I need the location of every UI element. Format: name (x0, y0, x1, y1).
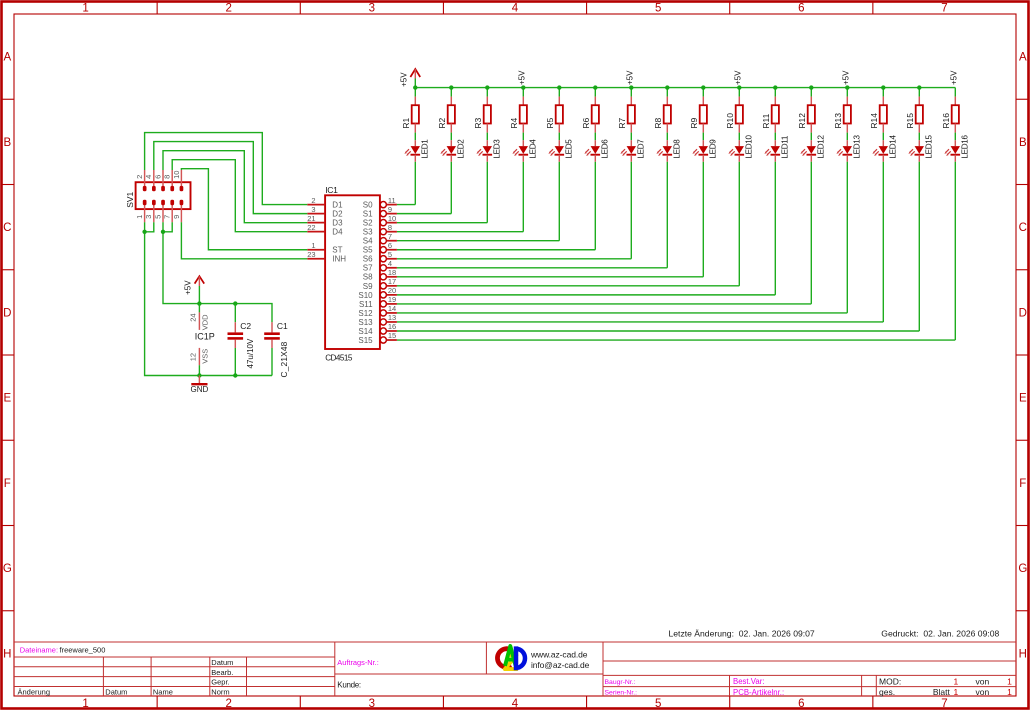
resistor R10 (725, 88, 743, 133)
svg-text:Blatt: Blatt (933, 687, 951, 697)
wire (397, 222, 487, 224)
svg-text:LED9: LED9 (709, 139, 718, 159)
wire (397, 330, 919, 332)
LED LED2 (440, 139, 465, 162)
svg-text:C: C (3, 222, 11, 234)
ic power part IC1P (188, 304, 214, 376)
svg-text:R9: R9 (689, 117, 699, 128)
LED LED6 (584, 139, 609, 162)
svg-text:7: 7 (941, 698, 947, 710)
svg-text:D3: D3 (332, 219, 343, 228)
wire (666, 162, 668, 268)
svg-text:2: 2 (135, 175, 144, 179)
LED LED12 (800, 135, 825, 162)
wire (397, 321, 883, 323)
svg-text:S3: S3 (363, 228, 373, 237)
svg-text:1: 1 (82, 3, 88, 15)
svg-text:4: 4 (512, 698, 519, 710)
wire (414, 162, 416, 205)
ground GND (191, 376, 209, 395)
svg-text:IC1P: IC1P (195, 331, 215, 341)
svg-text:C: C (1019, 222, 1027, 234)
svg-text:E: E (1019, 393, 1027, 405)
wire (414, 133, 416, 141)
svg-text:Kunde:: Kunde: (337, 680, 361, 689)
svg-text:SV1: SV1 (125, 191, 135, 207)
junction (161, 230, 165, 234)
wire (702, 162, 704, 277)
wire (145, 222, 154, 232)
svg-text:R14: R14 (869, 113, 879, 129)
svg-text:R12: R12 (797, 113, 807, 129)
svg-text:1: 1 (1007, 687, 1012, 697)
LED LED10 (728, 135, 753, 162)
svg-text:14: 14 (388, 304, 396, 313)
wire (882, 162, 884, 322)
svg-text:+5V: +5V (841, 70, 850, 85)
svg-text:16: 16 (388, 322, 396, 331)
svg-text:LED1: LED1 (421, 139, 430, 159)
wire (594, 162, 596, 250)
wire (397, 303, 811, 305)
svg-text:LED13: LED13 (853, 135, 862, 159)
svg-text:IC1: IC1 (325, 185, 338, 195)
svg-text:B: B (3, 137, 11, 149)
svg-text:4: 4 (512, 3, 519, 15)
svg-text:Best.Var:: Best.Var: (733, 677, 765, 686)
svg-text:1: 1 (135, 215, 144, 219)
svg-text:www.az-cad.de: www.az-cad.de (530, 650, 588, 660)
svg-text:5: 5 (655, 698, 661, 710)
svg-text:12: 12 (188, 353, 197, 361)
wire (666, 133, 668, 141)
junction (881, 85, 885, 89)
svg-text:S8: S8 (363, 273, 373, 282)
svg-text:R2: R2 (437, 117, 447, 128)
svg-text:23: 23 (307, 250, 315, 259)
svg-text:6: 6 (798, 698, 804, 710)
junction (593, 85, 597, 89)
svg-text:H: H (3, 648, 11, 660)
svg-text:VSS: VSS (201, 349, 210, 364)
LED LED7 (620, 139, 645, 162)
supply +5V P1 (400, 69, 421, 88)
svg-text:R5: R5 (545, 117, 555, 128)
svg-text:+5V: +5V (625, 70, 634, 85)
svg-text:info@az-cad.de: info@az-cad.de (531, 660, 590, 670)
svg-text:S9: S9 (363, 282, 373, 291)
wire (397, 294, 775, 296)
svg-text:Gedruckt: 02. Jan. 2026 09:08: Gedruckt: 02. Jan. 2026 09:08 (881, 628, 999, 638)
svg-text:S7: S7 (363, 264, 373, 273)
wire (774, 133, 776, 141)
wire (918, 162, 920, 331)
svg-text:VDD: VDD (201, 314, 210, 330)
svg-text:D2: D2 (332, 210, 343, 219)
svg-text:Bearb.: Bearb. (211, 668, 233, 677)
svg-text:R4: R4 (509, 117, 519, 128)
junction (845, 85, 849, 89)
junction (809, 85, 813, 89)
junction (557, 85, 561, 89)
svg-text:LED14: LED14 (889, 135, 898, 159)
svg-text:S6: S6 (363, 255, 373, 264)
wire (594, 133, 596, 141)
svg-text:+5V: +5V (949, 70, 958, 85)
svg-text:R1: R1 (401, 117, 411, 128)
junction (701, 85, 705, 89)
capacitor C1 (264, 321, 289, 378)
svg-text:von: von (976, 687, 990, 697)
svg-text:S12: S12 (358, 309, 373, 318)
wire (738, 162, 740, 286)
svg-text:CD4515: CD4515 (325, 354, 353, 363)
svg-text:LED8: LED8 (673, 139, 682, 159)
svg-text:C2: C2 (240, 321, 251, 331)
svg-text:S5: S5 (363, 246, 373, 255)
svg-text:1: 1 (1007, 676, 1012, 686)
svg-text:2: 2 (226, 698, 232, 710)
wire (810, 133, 812, 141)
wire (738, 133, 740, 141)
svg-text:18: 18 (388, 268, 396, 277)
resistor R2 (437, 88, 455, 133)
LED LED16 (944, 135, 969, 162)
LED LED11 (764, 135, 789, 162)
svg-text:5: 5 (388, 250, 392, 259)
svg-text:5: 5 (655, 3, 661, 15)
svg-text:R3: R3 (473, 117, 483, 128)
svg-text:47u/10V: 47u/10V (246, 338, 255, 368)
svg-text:3: 3 (144, 215, 153, 219)
wire (397, 240, 559, 242)
wire (810, 162, 812, 304)
svg-text:Datum: Datum (105, 687, 127, 696)
svg-text:20: 20 (388, 286, 396, 295)
svg-text:Name: Name (153, 687, 173, 696)
svg-text:S11: S11 (359, 300, 373, 309)
wire (918, 133, 920, 141)
svg-text:Auftrags-Nr.:: Auftrags-Nr.: (337, 658, 378, 667)
resistor R14 (869, 88, 887, 133)
svg-text:S10: S10 (358, 291, 373, 300)
junction (197, 373, 201, 377)
svg-text:LED16: LED16 (961, 135, 970, 159)
svg-text:4: 4 (388, 259, 392, 268)
wire (163, 151, 307, 223)
wire (172, 160, 307, 232)
svg-text:INH: INH (332, 255, 346, 264)
wire (397, 312, 847, 314)
svg-text:3: 3 (369, 698, 375, 710)
junction (142, 230, 146, 234)
svg-text:R11: R11 (761, 113, 771, 128)
resistor R4 (509, 88, 527, 133)
resistor R6 (581, 88, 599, 133)
junction (449, 85, 453, 89)
svg-text:LED4: LED4 (529, 139, 538, 159)
resistor R1 (401, 88, 419, 133)
wire +5V rail (415, 87, 955, 89)
svg-text:D1: D1 (332, 201, 343, 210)
svg-text:10: 10 (388, 214, 396, 223)
ic U1 CD4515 (307, 185, 397, 363)
wire (145, 133, 308, 205)
junction (233, 301, 237, 305)
wire (450, 162, 452, 214)
resistor R7 (617, 88, 635, 133)
svg-text:15: 15 (388, 331, 396, 340)
svg-text:R8: R8 (653, 117, 663, 128)
svg-text:G: G (3, 563, 12, 575)
wire (558, 133, 560, 141)
wire (846, 162, 848, 313)
svg-text:Dateiname:: Dateiname: (20, 646, 58, 655)
svg-text:LED2: LED2 (457, 139, 466, 159)
wire (630, 162, 632, 259)
svg-text:6: 6 (798, 3, 804, 15)
wire (397, 285, 739, 287)
svg-text:G: G (1018, 563, 1027, 575)
svg-text:2: 2 (311, 196, 315, 205)
svg-text:LED12: LED12 (817, 135, 826, 159)
LED LED4 (512, 139, 537, 162)
svg-text:S15: S15 (358, 336, 373, 345)
svg-text:7: 7 (941, 3, 947, 15)
wire (522, 162, 524, 232)
junction (233, 373, 237, 377)
svg-text:S0: S0 (363, 201, 373, 210)
svg-text:21: 21 (307, 214, 315, 223)
svg-text:von: von (976, 676, 990, 686)
LED LED5 (548, 139, 573, 162)
wire (397, 276, 703, 278)
svg-text:S2: S2 (363, 219, 373, 228)
svg-text:9: 9 (388, 205, 392, 214)
svg-text:10: 10 (172, 171, 181, 179)
svg-text:Letzte Änderung: 02. Jan. 202: Letzte Änderung: 02. Jan. 2026 09:07 (669, 628, 815, 638)
wire (450, 133, 452, 141)
LED LED1 (404, 139, 429, 162)
wire (882, 133, 884, 141)
svg-text:MOD:: MOD: (879, 676, 901, 686)
wire (397, 249, 595, 251)
wire +5V net left (163, 222, 272, 322)
svg-text:Baugr-Nr.:: Baugr-Nr.: (605, 679, 636, 686)
svg-text:11: 11 (388, 196, 396, 205)
svg-text:13: 13 (388, 313, 396, 322)
svg-text:C1: C1 (277, 321, 288, 331)
svg-text:LED10: LED10 (745, 135, 754, 159)
junction (665, 85, 669, 89)
wire (397, 231, 523, 233)
svg-text:+5V: +5V (517, 70, 526, 85)
junction (413, 85, 417, 89)
svg-text:LED6: LED6 (601, 139, 610, 159)
resistor R8 (653, 88, 671, 133)
wire (954, 133, 956, 141)
junction (197, 301, 201, 305)
resistor R5 (545, 88, 563, 133)
junction (521, 85, 525, 89)
wire (486, 133, 488, 141)
svg-text:D: D (3, 307, 11, 319)
wire (397, 258, 631, 260)
svg-text:freeware_500: freeware_500 (60, 646, 106, 655)
svg-text:F: F (4, 478, 11, 490)
wire (702, 133, 704, 141)
connector SV1 (125, 170, 190, 222)
svg-text:LED3: LED3 (493, 139, 502, 159)
svg-text:Änderung: Änderung (18, 687, 51, 696)
LED LED14 (872, 135, 897, 162)
wire GND net left (145, 222, 272, 375)
svg-text:19: 19 (388, 295, 396, 304)
svg-text:+5V: +5V (184, 280, 193, 295)
wire (522, 133, 524, 141)
svg-text:2: 2 (226, 3, 232, 15)
svg-text:R10: R10 (725, 113, 735, 129)
svg-text:S14: S14 (358, 327, 373, 336)
svg-text:17: 17 (388, 277, 396, 286)
wire (154, 142, 307, 214)
svg-text:LED11: LED11 (781, 135, 790, 158)
svg-text:GND: GND (191, 385, 209, 394)
svg-text:S13: S13 (358, 318, 373, 327)
svg-text:C_21X48: C_21X48 (279, 341, 289, 377)
svg-text:D: D (1019, 307, 1027, 319)
supply +5V P2 (184, 276, 205, 303)
resistor R3 (473, 88, 491, 133)
capacitor C2 (228, 304, 255, 376)
svg-text:1: 1 (311, 241, 315, 250)
svg-text:ST: ST (332, 246, 342, 255)
svg-text:LED7: LED7 (637, 139, 646, 159)
svg-text:6: 6 (153, 175, 162, 179)
svg-text:A: A (1019, 52, 1027, 64)
junction (737, 85, 741, 89)
resistor R12 (797, 88, 815, 133)
wire (630, 133, 632, 141)
wire INH net (181, 222, 307, 258)
svg-text:B: B (1019, 137, 1027, 149)
svg-text:3: 3 (369, 3, 375, 15)
wire (846, 133, 848, 141)
svg-text:3: 3 (311, 205, 315, 214)
svg-text:ges.: ges. (879, 687, 895, 697)
svg-text:+5V: +5V (400, 72, 409, 87)
svg-text:Serien-Nr.:: Serien-Nr.: (605, 689, 638, 696)
svg-text:A: A (3, 52, 11, 64)
svg-text:1: 1 (82, 698, 88, 710)
svg-text:R13: R13 (833, 113, 843, 129)
svg-text:F: F (1019, 478, 1026, 490)
LED LED15 (908, 135, 933, 162)
svg-text:4: 4 (144, 175, 153, 179)
svg-text:LED15: LED15 (925, 135, 934, 159)
svg-text:24: 24 (188, 313, 197, 321)
svg-text:1: 1 (953, 687, 958, 697)
svg-text:7: 7 (388, 232, 392, 241)
svg-text:S4: S4 (363, 237, 373, 246)
LED LED3 (476, 139, 501, 162)
svg-text:6: 6 (388, 241, 392, 250)
svg-text:22: 22 (307, 223, 315, 232)
junction (629, 85, 633, 89)
wire (774, 162, 776, 295)
svg-text:9: 9 (172, 215, 181, 219)
junction (485, 85, 489, 89)
LED LED13 (836, 135, 861, 162)
svg-text:E: E (3, 393, 11, 405)
resistor R11 (761, 88, 779, 133)
resistor R9 (689, 88, 707, 133)
resistor R13 (833, 88, 851, 133)
svg-text:R7: R7 (617, 117, 627, 128)
svg-text:5: 5 (153, 215, 162, 219)
wire (954, 162, 956, 340)
wire (181, 169, 307, 250)
resistor R15 (905, 88, 923, 133)
svg-text:LED5: LED5 (565, 139, 574, 159)
LED LED8 (656, 139, 681, 162)
wire (397, 213, 451, 215)
svg-text:H: H (1019, 648, 1027, 660)
wire (397, 267, 667, 269)
wire (558, 162, 560, 241)
wire (397, 204, 415, 206)
svg-text:Gepr.: Gepr. (211, 678, 229, 687)
svg-text:PCB-Artikelnr.:: PCB-Artikelnr.: (733, 688, 784, 697)
svg-text:D4: D4 (332, 228, 343, 237)
svg-text:8: 8 (163, 175, 172, 179)
wire (486, 162, 488, 223)
svg-text:R6: R6 (581, 117, 591, 128)
wire (163, 222, 172, 232)
svg-text:R15: R15 (905, 113, 915, 129)
svg-text:7: 7 (163, 215, 172, 219)
LED LED9 (692, 139, 717, 162)
svg-text:1: 1 (953, 676, 958, 686)
svg-text:S1: S1 (363, 210, 373, 219)
svg-text:Datum: Datum (211, 658, 233, 667)
junction (773, 85, 777, 89)
wire (397, 339, 955, 341)
svg-text:8: 8 (388, 223, 392, 232)
junction (917, 85, 921, 89)
resistor R16 (941, 88, 959, 133)
svg-text:+5V: +5V (733, 70, 742, 85)
svg-text:R16: R16 (941, 113, 951, 129)
svg-text:Norm: Norm (211, 687, 229, 696)
